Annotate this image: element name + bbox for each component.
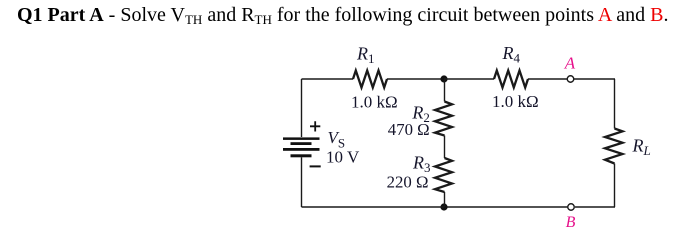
svg-text:1.0 kΩ: 1.0 kΩ <box>351 93 398 112</box>
wire R1 to top junction <box>387 78 444 80</box>
svg-text:10 V: 10 V <box>326 148 360 167</box>
resistor R3 <box>435 158 452 192</box>
resistor R1 <box>353 71 387 88</box>
battery VS plate 2 (short) <box>291 142 312 145</box>
wire bottom-right (corner to terminal B) <box>575 206 615 208</box>
battery VS plate 4 (short) <box>291 154 312 157</box>
wire right side lower <box>614 164 616 208</box>
wire left side upper <box>301 79 303 137</box>
svg-text:A: A <box>564 53 576 72</box>
wire top-left (left corner to R1) <box>302 78 354 80</box>
wire B to bottom junction <box>444 206 568 208</box>
svg-text:R4: R4 <box>502 43 521 66</box>
battery minus sign <box>310 165 321 167</box>
terminal A (open circle) <box>567 76 574 83</box>
title <box>17 4 669 27</box>
svg-text:RL: RL <box>632 136 651 159</box>
wire bottom-left (junction to left corner) <box>302 206 445 208</box>
svg-text:1.0 kΩ: 1.0 kΩ <box>492 92 539 111</box>
wire junction to R4 <box>444 78 494 80</box>
wire right side upper <box>614 79 616 129</box>
battery plus sign <box>310 121 320 131</box>
battery VS plate 1 (long) <box>283 137 320 140</box>
wire middle branch top (junction to R2) <box>444 79 446 102</box>
wire middle branch (R2 to R3) <box>444 136 446 159</box>
battery VS plate 3 (long) <box>283 148 320 151</box>
terminal B (open circle) <box>568 204 575 211</box>
wire left side lower <box>301 157 303 207</box>
wire A to top-right corner <box>574 78 615 80</box>
wire R4 to terminal A <box>528 78 567 80</box>
node junction bottom <box>440 203 447 210</box>
resistor R4 <box>494 71 528 88</box>
node junction top <box>440 75 447 82</box>
resistor R2 <box>435 102 452 136</box>
svg-text:R1: R1 <box>356 44 375 67</box>
svg-text:470 Ω: 470 Ω <box>388 120 430 139</box>
wire middle branch bottom (R3 to junction) <box>444 192 446 207</box>
svg-text:220 Ω: 220 Ω <box>387 173 429 192</box>
resistor RL <box>605 129 623 164</box>
svg-text:B: B <box>566 214 576 231</box>
